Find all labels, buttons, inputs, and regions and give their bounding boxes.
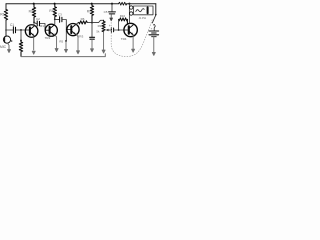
svg-text:C5: C5 bbox=[104, 10, 108, 14]
wire base Q1 bbox=[21, 29, 25, 31]
node R7 bottom bbox=[91, 22, 93, 24]
jack terminal 1 bbox=[130, 6, 133, 9]
wire rail to C5 bbox=[111, 4, 113, 12]
wire node to C4 bbox=[91, 23, 93, 37]
capacitor C5 bbox=[109, 12, 116, 14]
capacitor C3 bbox=[60, 17, 62, 22]
wire Q1 emitter to ground bbox=[33, 37, 35, 50]
resistor R6 horizontal bbox=[79, 21, 87, 24]
wire R6 to node bbox=[87, 21, 92, 23]
svg-text:R5: R5 bbox=[59, 39, 63, 43]
wire R10 left leg bbox=[118, 20, 120, 30]
node bias Q3 bbox=[65, 40, 67, 42]
svg-text:R7: R7 bbox=[87, 9, 91, 13]
ground arrow pot bbox=[102, 50, 105, 53]
junction dot rail jack bbox=[128, 3, 130, 5]
wire Q3 base node down bbox=[65, 30, 67, 42]
wire top rail right bbox=[127, 3, 156, 5]
svg-text:R6: R6 bbox=[81, 17, 85, 21]
node base Q1 bbox=[20, 29, 22, 31]
wire left edge drop bbox=[5, 4, 7, 37]
capacitor C6 bbox=[106, 28, 125, 33]
wire battery to ground bbox=[153, 37, 155, 52]
ground arrow bias bbox=[65, 49, 68, 52]
svg-text:+: + bbox=[109, 24, 111, 28]
dashed mechanical link pot to switch bbox=[111, 20, 152, 57]
battery B1 bbox=[149, 31, 159, 37]
resistor R10 bbox=[119, 18, 128, 24]
resistor R1 bbox=[4, 10, 7, 21]
switch S1 bbox=[152, 14, 156, 31]
svg-text:C1: C1 bbox=[10, 23, 14, 27]
svg-text:C2: C2 bbox=[36, 17, 40, 21]
resistor R7 bbox=[90, 4, 93, 23]
rail bottom bbox=[21, 54, 105, 57]
node R10 base bbox=[118, 29, 120, 31]
resistor R9 pot track bbox=[102, 20, 105, 31]
svg-text:R10: R10 bbox=[120, 14, 126, 18]
wire right edge drop to switch bbox=[155, 4, 157, 14]
ground arrow C4 bbox=[91, 49, 94, 52]
svg-text:MIC: MIC bbox=[0, 45, 7, 49]
transistor Q3 bbox=[66, 24, 79, 36]
resistor R3 bbox=[32, 4, 35, 22]
capacitor C1 bbox=[6, 27, 21, 33]
capacitor C2 bbox=[34, 21, 45, 30]
ground arrow battery bbox=[152, 52, 155, 55]
transistor Q1 bbox=[25, 25, 38, 38]
wire Q1 collector bbox=[33, 22, 35, 27]
ground arrow mic bbox=[8, 46, 11, 53]
node Q1 collector bbox=[33, 21, 35, 23]
junction dot rail R7 bbox=[91, 3, 93, 5]
transistor Q2 bbox=[45, 24, 57, 36]
svg-text:R9: R9 bbox=[98, 24, 102, 28]
wire Q4 emitter to ground bbox=[132, 35, 134, 49]
ground arrow Q3 bbox=[77, 51, 80, 54]
capacitor C4 bbox=[90, 37, 95, 39]
wire jack down to Q4 collector bbox=[128, 4, 130, 24]
jack plug bar bbox=[147, 7, 149, 13]
node R2 top bbox=[20, 40, 22, 42]
node C1 junction bbox=[5, 29, 7, 31]
junction dot rail C5 bbox=[111, 3, 113, 5]
resistor R11 in rail bbox=[119, 2, 128, 5]
wire Q2 collector bbox=[55, 19, 59, 24]
wire Q3 collector up bbox=[76, 22, 79, 25]
wire bias to ground bbox=[65, 41, 67, 49]
svg-text:J1 PH: J1 PH bbox=[139, 16, 146, 20]
wiper arrow C5 bbox=[110, 14, 113, 21]
junction dot rail R3 bbox=[33, 3, 35, 5]
jack cord squiggle bbox=[136, 9, 144, 12]
wire top rail left bbox=[6, 3, 119, 5]
junction dot rail R4 bbox=[54, 3, 56, 5]
wire node to pot bbox=[92, 20, 104, 22]
svg-text:C3: C3 bbox=[58, 13, 62, 17]
wire C3 to Q3 base bbox=[62, 20, 66, 30]
ground arrow Q1 bbox=[32, 51, 35, 54]
wire node down bbox=[20, 30, 22, 41]
svg-text:TR3: TR3 bbox=[78, 34, 84, 38]
svg-text:TR4: TR4 bbox=[121, 37, 127, 41]
jack terminal 2 bbox=[130, 12, 133, 15]
svg-text:R4: R4 bbox=[49, 9, 53, 13]
wire C4 to ground bbox=[91, 39, 93, 49]
transistor Q4 bbox=[124, 23, 137, 36]
svg-text:R2: R2 bbox=[29, 10, 33, 14]
phone jack box bbox=[134, 6, 153, 15]
wire pot to rail corner bbox=[103, 32, 105, 50]
svg-text:5k: 5k bbox=[96, 30, 100, 34]
svg-text:+: + bbox=[151, 27, 153, 31]
wire mic to ground bbox=[8, 43, 10, 49]
wire rail to R10 bbox=[118, 4, 120, 20]
resistor R2 bbox=[19, 41, 22, 57]
node Q2 collector bbox=[54, 19, 56, 21]
ground arrow Q4 bbox=[132, 49, 135, 52]
wire Q2 emitter to ground bbox=[54, 34, 56, 49]
ground arrow Q2 bbox=[55, 49, 58, 52]
svg-text:TR2: TR2 bbox=[45, 36, 51, 40]
resistor R4 bbox=[53, 4, 56, 20]
wire Q3 emitter to ground bbox=[76, 34, 78, 51]
svg-text:R1: R1 bbox=[0, 13, 4, 17]
microphone MIC bbox=[3, 36, 12, 43]
